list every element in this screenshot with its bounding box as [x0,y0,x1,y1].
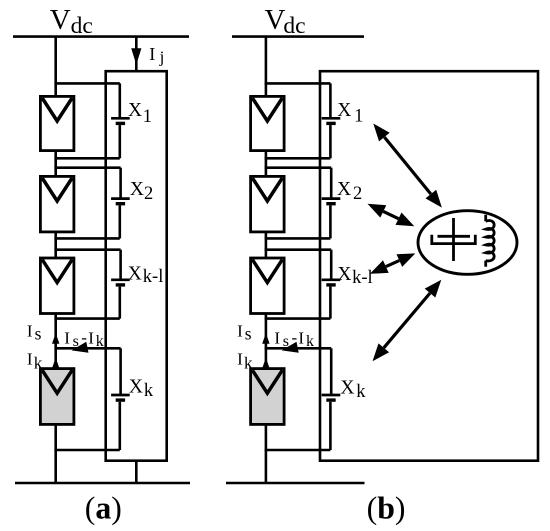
svg-text:V: V [50,4,71,36]
svg-text:I: I [27,349,33,368]
wire (a) node 2 to X3 positive [54,248,120,251]
battery (b) Xk [322,395,341,400]
bottom bus (b) [226,482,365,485]
wire (a) X3 negative to node 3 [54,317,119,320]
arrow (b) Is-Ik into node k [282,342,299,353]
junction box rectangle (a) [106,71,167,461]
inductor L1 inside tank [486,215,494,267]
solar cell (b) PV1 [251,96,285,150]
svg-text:(a): (a) [85,490,122,525]
svg-text:I: I [274,329,280,348]
wire (b) PVk to bottom bus [265,423,268,483]
svg-text:2: 2 [144,184,153,204]
wire (b) node 2 to X3 positive [265,248,332,251]
wire (b) X2 negative to node 2 [265,237,331,240]
wire Ij bus into junction box (a) [135,37,138,72]
svg-text:(b): (b) [367,490,406,525]
svg-text:s: s [35,324,42,344]
wire (b) X1 negative to node 1 [265,157,331,160]
svg-text:k-l: k-l [143,267,164,287]
capacitor C1 inside tank [432,218,476,261]
svg-text:k: k [244,353,253,372]
battery (b) X2 [322,199,341,204]
solar cell (b) PV2 [251,176,285,232]
svg-text:I: I [237,321,243,340]
solar cell (b) PVk shaded [251,369,285,425]
wire (a) top node to X1 positive [54,82,119,85]
wire (a) PVk to bottom bus [54,423,57,483]
svg-text:X: X [128,100,142,121]
wire (b) PV2 to PV3 [265,231,268,259]
node Vdc bus (a) [13,35,189,38]
battery (b) X1 [322,118,341,123]
wireless link arrow X1 to tank [373,124,442,208]
node Vdc bus (b) [232,35,364,38]
svg-text:j: j [159,48,165,67]
battery (a) X1 [111,118,130,123]
svg-text:X: X [128,263,142,284]
wire (a) X1 negative to node 1 [54,157,119,160]
svg-text:k: k [306,333,314,350]
svg-text:dc: dc [71,13,93,39]
svg-text:I: I [149,44,155,64]
arrow (a) Ik cell current [52,358,59,369]
svg-text:dc: dc [283,13,305,39]
battery (a) X2 [111,199,130,204]
wire (b) X3 negative to node 3 [265,317,331,320]
solar cell (a) PVk-1 [40,258,74,314]
svg-text:I: I [27,321,33,340]
wire (a) PV3 to PVk [54,313,57,370]
wireless link arrow X2 to tank [368,204,415,227]
arrow (b) Ik cell current [262,358,269,369]
svg-text:X: X [130,179,144,200]
svg-text:I: I [64,329,70,348]
svg-text:X: X [337,264,351,285]
svg-text:1: 1 [354,107,363,127]
svg-text:X: X [337,179,351,200]
wireless link arrow Xk to tank [373,280,442,362]
wire (a) PV2 to PV3 [54,231,57,259]
battery (a) Xk [111,395,130,400]
wire (b) Vdc bus to PV1 [265,37,268,97]
bottom bus (a) [15,482,190,485]
resonant tank ellipse U1 (b) [418,211,517,275]
arrow (a) Is string current [52,333,59,344]
svg-text:I: I [237,349,243,368]
wire (b) Xk negative to node k [329,402,332,450]
svg-text:V: V [265,4,286,36]
wire (a) node 3 to X4 positive [54,347,120,350]
battery (b) Xk-1 [322,280,341,285]
wire (a) Xk negative to node k [119,402,122,450]
wire (a) node 1 to X2 positive [54,166,120,169]
svg-text:s: s [245,324,252,344]
svg-text:2: 2 [353,184,362,204]
wire (a) X2 negative to node 2 [54,237,119,240]
svg-text:X: X [129,376,143,397]
wire (b) PV1 to PV2 [265,150,268,178]
wire (b) node 3 to X4 positive [265,347,332,350]
solar cell (b) PVk-1 [251,258,285,314]
wire (b) node 1 to X2 positive [265,166,332,169]
svg-text:X: X [337,100,351,121]
svg-text:k: k [356,382,366,402]
svg-text:k: k [34,353,43,372]
svg-text:k-l: k-l [352,268,373,288]
svg-text:k: k [96,333,104,350]
battery (a) Xk-1 [111,280,130,285]
svg-text:I: I [298,328,304,347]
solar cell (a) PVk shaded [40,369,74,425]
svg-text:X: X [340,378,354,399]
solar cell (a) PV1 [40,96,74,150]
arrow (a) Is-Ik into node k [72,342,89,353]
wire (b) top node to X1 positive [265,82,331,85]
wireless junction box rectangle (b) [320,71,538,461]
wireless link arrow Xk-1 to tank [370,253,415,273]
arrow (b) Is string current [262,333,269,344]
wire (a) Vdc bus to PV1 [54,37,57,97]
solar cell (a) PV2 [40,176,74,232]
arrow Ij (a) [131,48,141,65]
wire junction box to bottom bus (a) [135,461,138,483]
wire (b) PV3 to PVk [265,313,268,370]
svg-text:I: I [88,328,94,347]
svg-text:k: k [144,381,154,401]
wire (a) PV1 to PV2 [54,150,57,178]
svg-text:1: 1 [143,107,152,127]
